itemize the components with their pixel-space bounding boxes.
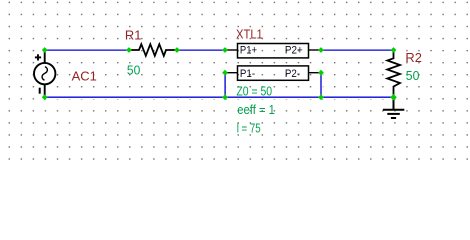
svg-text:AC1: AC1 [72, 69, 97, 84]
node XTL1 P1- [222, 70, 228, 76]
svg-text:P1+: P1+ [240, 45, 257, 57]
wire top: AC1 to R1 [45, 49, 129, 51]
svg-text:50: 50 [406, 69, 420, 83]
node XTL1 P2+ [318, 47, 324, 53]
svg-text:XTL1: XTL1 [236, 27, 263, 42]
svg-text:R1: R1 [125, 27, 141, 42]
wire top: R1 to XTL1 [177, 49, 225, 51]
transmission line XTL1 bottom box [238, 66, 309, 80]
XTL1 leads [225, 50, 321, 73]
node R2 bottom [390, 94, 397, 101]
node R1 right [174, 47, 180, 53]
node rail right junction [318, 94, 324, 100]
node R1 left [126, 47, 132, 53]
svg-text:R2: R2 [405, 50, 422, 65]
svg-text:P2+: P2+ [285, 45, 303, 57]
node R2 top [391, 47, 397, 53]
wire vertical XTL1 left to rail [224, 73, 226, 98]
voltage source AC1 [34, 50, 55, 97]
node at AC1 top [42, 47, 48, 53]
svg-text:P2-: P2- [285, 68, 300, 80]
resistor R2 [387, 50, 400, 97]
svg-text:Z0 = 50: Z0 = 50 [236, 85, 272, 99]
wire vertical XTL1 right to rail [320, 73, 322, 98]
wire top: XTL1 to R2 [321, 49, 394, 51]
node rail left junction [222, 94, 228, 100]
wire bottom rail [45, 96, 394, 98]
node at AC1 bottom [42, 94, 48, 100]
svg-text:50: 50 [127, 64, 140, 78]
svg-text:l = 75: l = 75 [237, 121, 261, 135]
ground [383, 97, 404, 118]
node XTL1 P2- [318, 70, 324, 76]
transmission line XTL1 top box [238, 44, 309, 58]
wire underlays (hide grid dots beneath wires) [45, 50, 394, 97]
node XTL1 P1+ [222, 47, 228, 53]
svg-text:P1-: P1- [240, 68, 255, 80]
resistor R1 [129, 44, 177, 56]
svg-text:eeff = 1: eeff = 1 [237, 103, 275, 117]
